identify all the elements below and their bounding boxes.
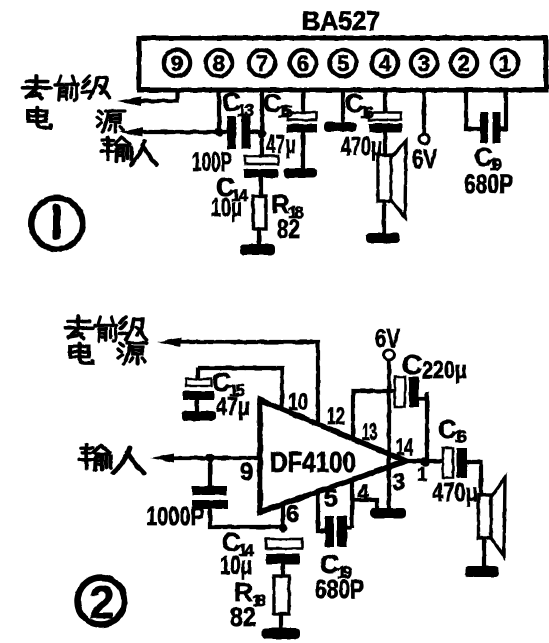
svg-text:5: 5: [337, 51, 349, 76]
svg-text:C: C: [402, 349, 422, 380]
svg-text:1: 1: [417, 465, 428, 486]
svg-text:3: 3: [392, 469, 405, 496]
svg-text:470μ: 470μ: [341, 131, 382, 161]
svg-text:6V: 6V: [412, 144, 437, 174]
svg-text:16: 16: [454, 427, 467, 446]
svg-text:680P: 680P: [464, 169, 513, 199]
svg-text:BA527: BA527: [302, 6, 380, 36]
svg-text:6V: 6V: [375, 323, 401, 353]
svg-text:82: 82: [277, 214, 300, 244]
svg-text:15: 15: [278, 102, 293, 121]
svg-text:4: 4: [357, 480, 370, 505]
svg-text:680P: 680P: [315, 574, 364, 604]
svg-text:2: 2: [458, 51, 470, 76]
svg-text:DF4100: DF4100: [270, 447, 356, 479]
svg-text:6: 6: [297, 51, 309, 76]
svg-text:13: 13: [362, 419, 377, 446]
svg-text:10μ: 10μ: [211, 192, 242, 222]
svg-text:1000P: 1000P: [146, 501, 204, 531]
svg-text:6: 6: [286, 501, 299, 528]
svg-text:8: 8: [213, 51, 225, 76]
svg-text:10μ: 10μ: [220, 550, 252, 580]
svg-text:13: 13: [237, 101, 254, 120]
svg-text:4: 4: [379, 51, 392, 76]
svg-text:2: 2: [89, 577, 114, 628]
svg-text:16: 16: [360, 103, 374, 122]
svg-text:9: 9: [171, 51, 183, 76]
svg-text:47μ: 47μ: [216, 391, 250, 421]
svg-text:220μ: 220μ: [422, 357, 467, 384]
svg-text:10: 10: [288, 389, 308, 416]
svg-text:5: 5: [324, 485, 337, 512]
svg-text:470μ: 470μ: [432, 477, 478, 507]
svg-text:47μ: 47μ: [266, 129, 296, 159]
svg-text:14: 14: [396, 434, 413, 461]
svg-text:7: 7: [256, 51, 268, 76]
svg-text:3: 3: [418, 51, 430, 76]
svg-text:9: 9: [240, 459, 253, 486]
svg-text:12: 12: [327, 403, 345, 430]
svg-text:82: 82: [230, 602, 256, 632]
svg-text:1: 1: [499, 51, 511, 76]
